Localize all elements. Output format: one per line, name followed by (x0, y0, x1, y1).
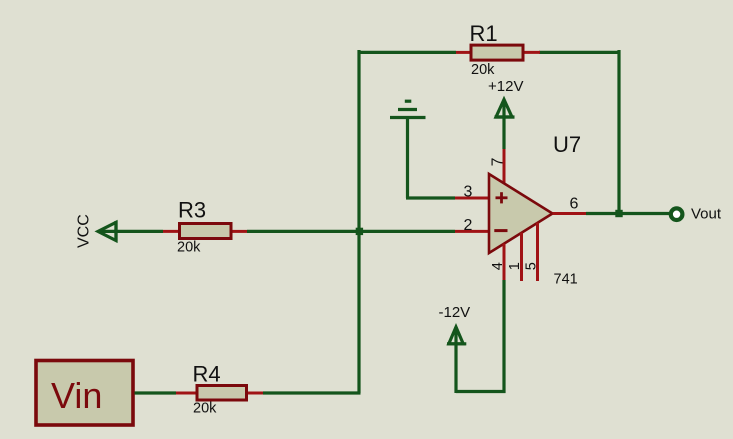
svg-text:20k: 20k (471, 62, 495, 78)
resistor R3 body (180, 224, 232, 239)
svg-text:1: 1 (507, 262, 523, 270)
power flag VCC arrow (98, 221, 116, 242)
svg-text:R3: R3 (178, 198, 206, 223)
wire: top feedback wire right green segment (539, 51, 621, 54)
svg-text:741: 741 (554, 272, 578, 288)
pin 2 stub (red) (455, 230, 489, 233)
wire: bottom horizontal to -12V (green) (456, 390, 506, 393)
wire: right vertical from R1 wire down to output node (617, 50, 620, 214)
svg-text:VCC: VCC (76, 214, 93, 248)
wire: R3 to inverting input (green) (247, 230, 455, 233)
resistor R4 body (197, 386, 247, 401)
wire: output to terminal (green) (586, 212, 670, 215)
power flag +12V arrow (495, 100, 515, 118)
op-amp minus marking (494, 229, 507, 232)
wire: left vertical bus from R1 wire down to R4 wire (357, 50, 360, 393)
resistor R3 lead left (red) (163, 230, 180, 233)
wire: R4 to left bus (green) (263, 391, 361, 394)
wire: VCC row green from arrow to R3 (114, 230, 163, 233)
svg-text:U7: U7 (553, 132, 581, 157)
wire: -12V stem (green) (454, 327, 457, 393)
svg-text:R4: R4 (193, 362, 221, 387)
op-amp U7 triangle (489, 174, 553, 253)
wire: +12V stem (green) (502, 100, 505, 150)
svg-text:6: 6 (570, 196, 579, 213)
wire: top feedback wire left green segment (358, 51, 457, 54)
junction node at left bus and R3 row (356, 228, 363, 235)
resistor R4 lead right (red) (246, 392, 263, 395)
svg-text:Vout: Vout (691, 206, 722, 223)
svg-text:-12V: -12V (439, 304, 471, 321)
svg-text:5: 5 (524, 262, 540, 270)
pin 5 stub (red) (536, 223, 539, 282)
terminal Vout circle (671, 208, 683, 220)
pin 3 stub (red) (455, 197, 489, 200)
pin 1 stub (red) (520, 233, 523, 282)
pin 4 stub (red) (503, 244, 506, 281)
wire: Vin to R4 (green) (135, 391, 177, 394)
svg-text:+12V: +12V (488, 78, 523, 95)
wire: ground to non-inverting input (406, 196, 455, 199)
pin 6 stub (red) (553, 212, 587, 215)
svg-text:7: 7 (489, 158, 506, 167)
pin 7 stub (red) (503, 149, 506, 184)
svg-text:Vin: Vin (51, 375, 102, 416)
junction node at output (615, 210, 622, 217)
resistor R1 lead left (red) (456, 51, 471, 54)
svg-text:20k: 20k (193, 401, 217, 417)
resistor R1 lead right (red) (523, 51, 540, 54)
wire: pin4 down (green) (502, 280, 505, 393)
svg-text:R1: R1 (470, 21, 498, 46)
ground symbol (390, 101, 426, 117)
svg-text:2: 2 (464, 217, 473, 234)
resistor R4 lead left (red) (176, 392, 197, 395)
power flag -12V arrow (447, 327, 466, 344)
resistor R3 lead right (red) (231, 230, 247, 233)
svg-text:4: 4 (490, 262, 506, 270)
op-amp plus marking (496, 192, 508, 203)
svg-text:20k: 20k (177, 240, 201, 256)
Vin source box (36, 361, 133, 426)
svg-text:3: 3 (464, 184, 473, 201)
wire: ground stem down (406, 118, 409, 199)
resistor R1 body (471, 45, 523, 60)
